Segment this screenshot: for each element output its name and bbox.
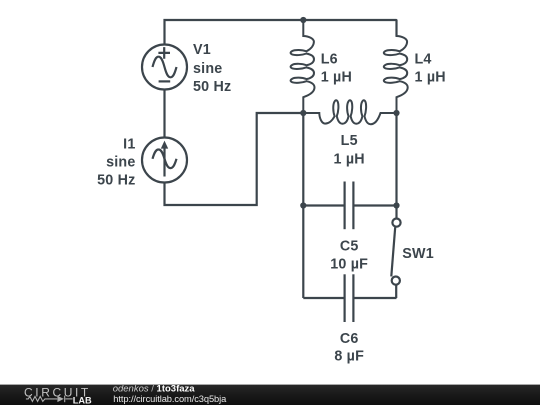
capacitor C5 [345,182,354,230]
wire: right branch vertical from L4/L5 node down to switch [395,113,397,218]
SW1 bottom terminal circle [392,277,400,285]
svg-text:C5: C5 [340,238,359,254]
svg-text:50 Hz: 50 Hz [97,172,135,188]
svg-text:V1: V1 [193,42,211,58]
inductor L6 [291,20,315,113]
node A (top junction) [300,17,306,23]
svg-text:sine: sine [106,154,135,170]
voltage source V1 [142,45,187,90]
SW1 lever [391,227,395,276]
wire: C5 left lead [303,204,344,206]
I1 circle body [142,138,187,183]
SW1 top terminal circle [392,219,400,227]
wire: switch bottom to bottom wire [395,285,397,298]
C6 left plate [344,274,346,322]
inductor L5 (horizontal, loops up) [303,100,396,124]
node E (C5 right / switch junction) [393,202,399,208]
svg-text:odenkos / 1to3faza: odenkos / 1to3faza [113,383,196,394]
V1 circle body [142,45,187,90]
wire: top horizontal from V1 top to L4 top [165,20,397,45]
wire: C6 right lead [353,297,396,299]
svg-text:8 µF: 8 µF [334,349,364,365]
svg-text:I1: I1 [123,136,135,152]
V1 minus sign [159,80,171,82]
wire: L4 top drop [395,20,397,36]
svg-text:1 µH: 1 µH [334,151,365,167]
C5 left plate [344,182,346,230]
svg-text:sine: sine [193,61,222,77]
V1 plus sign [158,47,170,59]
node C (L4/L5 junction) [393,110,399,116]
switch SW1 [391,219,400,285]
footer bar [0,385,540,405]
svg-text:L4: L4 [415,52,432,68]
C5 right plate [352,182,354,230]
svg-text:1 µH: 1 µH [321,70,352,86]
inductor L4 [384,20,408,113]
wire: C6 left lead [303,297,344,299]
capacitor C6 [345,274,354,322]
C6 right plate [352,274,354,322]
svg-text:10 µF: 10 µF [330,256,368,272]
wire: I1 bottom down-right-up to L5 left node [165,113,303,205]
svg-text:SW1: SW1 [402,246,434,262]
svg-text:C6: C6 [340,331,359,347]
svg-text:1 µH: 1 µH [415,70,446,86]
wire: C5 right lead [353,204,396,206]
svg-text:http://circuitlab.com/c3q5bja: http://circuitlab.com/c3q5bja [113,394,227,404]
I1 arrow shaft [163,148,165,177]
I1 arrow head [161,141,168,149]
logo resistor zigzag and arrow [26,396,73,403]
wire: left branch vertical x=303 from L6 bottom to C-row and bottom wire [302,113,304,298]
node B (L6/L5 junction) [300,110,306,116]
current source I1 [142,138,187,183]
svg-text:L5: L5 [341,133,358,149]
node D (C5 left junction) [300,202,306,208]
svg-text:50 Hz: 50 Hz [193,79,231,95]
V1 sine symbol [153,57,177,78]
wire: V1 bottom to I1 top [163,90,165,138]
I1 sine symbol [153,150,177,169]
svg-text:LAB: LAB [73,395,92,405]
svg-text:L6: L6 [321,52,338,68]
